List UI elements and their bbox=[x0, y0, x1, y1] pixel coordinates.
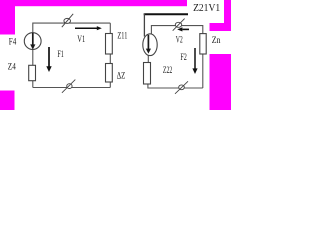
impedance Zn box bbox=[200, 34, 206, 54]
wire: right-loop left branch bbox=[143, 14, 145, 37]
wire: right-loop right branch bbox=[202, 54, 204, 88]
wire: left-loop left branch bbox=[32, 33, 34, 88]
svg-text:Z4: Z4 bbox=[8, 62, 16, 72]
magenta bottom-left block bbox=[0, 91, 15, 111]
svg-text:ΔZ: ΔZ bbox=[117, 70, 126, 80]
arrow inside F2 source bbox=[147, 35, 149, 50]
wire: right-loop bottom side bbox=[148, 84, 203, 88]
current source F4 circle bbox=[24, 33, 41, 50]
wire: left-loop bottom side bbox=[33, 87, 111, 89]
svg-text:F1: F1 bbox=[57, 49, 64, 59]
svg-text:F4: F4 bbox=[9, 37, 17, 47]
switch (fault) on right-loop bottom wire bbox=[175, 81, 188, 94]
arrow V2 (points left) bbox=[177, 27, 189, 31]
wire: left-loop right branch bbox=[109, 23, 111, 87]
wire: switch branch with corner to Zn bbox=[151, 26, 202, 35]
impedance deltaZ box bbox=[106, 64, 113, 83]
magenta top-left block bbox=[0, 0, 15, 35]
svg-text:Zn: Zn bbox=[212, 36, 221, 46]
svg-text:Z11: Z11 bbox=[117, 30, 127, 40]
svg-text:V2: V2 bbox=[176, 35, 183, 45]
svg-text:V1: V1 bbox=[77, 34, 85, 44]
switch (fault) on left-loop bottom wire bbox=[62, 80, 75, 93]
arrow F2 bbox=[192, 48, 197, 74]
arrow F1 bbox=[46, 47, 51, 72]
impedance Z4 box bbox=[29, 65, 36, 80]
switch (fault) on left-loop top wire bbox=[62, 14, 73, 27]
wire: stub source to Z22 box bbox=[147, 55, 149, 63]
arrow inside F4 source bbox=[32, 33, 34, 45]
svg-text:F2: F2 bbox=[180, 52, 187, 62]
wire: left-loop top side bbox=[33, 23, 111, 32]
impedance Z22 box bbox=[144, 63, 151, 85]
impedance Z11 box bbox=[106, 34, 113, 55]
svg-text:Z21V1: Z21V1 bbox=[193, 3, 220, 14]
magenta right block bbox=[210, 54, 232, 110]
magenta top strip bbox=[0, 0, 187, 6]
current source F2 ellipse bbox=[143, 34, 157, 56]
arrow V1 bbox=[75, 26, 102, 30]
magenta top-right bar bbox=[210, 23, 232, 31]
svg-text:Z22: Z22 bbox=[163, 65, 173, 75]
magenta top-right column bbox=[224, 0, 231, 24]
thick top line to Z21V1 label bbox=[144, 13, 188, 15]
switch (fault) on right-loop top branch bbox=[173, 19, 185, 31]
